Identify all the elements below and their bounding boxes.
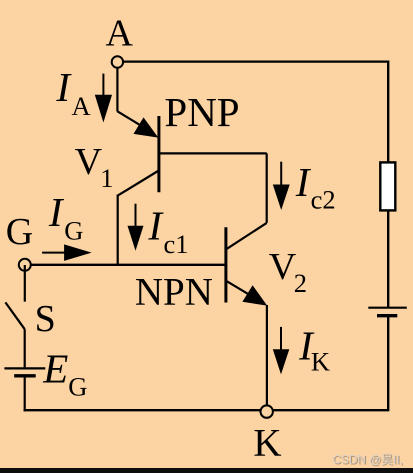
transistor V1 PNP base bar bbox=[157, 116, 160, 192]
transistor V1 PNP emitter arrowhead bbox=[134, 117, 159, 137]
bottom black bar bbox=[0, 468, 413, 473]
transistor V2 NPN base bar bbox=[224, 227, 227, 302]
svg-text:I: I bbox=[55, 64, 72, 110]
current arrow IA bbox=[102, 74, 104, 97]
transistor V2 NPN emitter arrowhead bbox=[242, 285, 267, 305]
battery E (right) short plate bbox=[377, 314, 397, 317]
battery EG short plate bbox=[14, 374, 36, 377]
wire top (A to right rail) bbox=[117, 60, 388, 62]
wire cathode vertical bbox=[266, 305, 268, 412]
svg-text:CSDN @吴II,: CSDN @吴II, bbox=[333, 453, 403, 467]
current arrow IK bbox=[280, 327, 282, 351]
svg-text:I: I bbox=[295, 159, 312, 205]
svg-text:G: G bbox=[68, 372, 87, 402]
current arrow Ic2 bbox=[280, 162, 282, 186]
node K terminal circle bbox=[261, 405, 273, 417]
wire V1 collector to gate wire bbox=[117, 195, 119, 265]
svg-text:K: K bbox=[311, 347, 330, 377]
transistor V2 NPN collector diagonal bbox=[226, 223, 267, 250]
battery E (right) long plate bbox=[368, 307, 407, 309]
wire right rail middle bbox=[387, 210, 389, 307]
svg-text:2: 2 bbox=[294, 268, 307, 298]
wire bottom rail bbox=[24, 409, 389, 411]
svg-text:PNP: PNP bbox=[164, 89, 239, 135]
wire V1 base to V2 collector (horizontal) bbox=[159, 152, 267, 154]
current arrow Ic1 bbox=[135, 204, 137, 228]
wire switch-battery vertical bbox=[24, 329, 26, 367]
transistor V1 PNP emitter wire bbox=[117, 111, 146, 128]
transistor V1 PNP collector diagonal bbox=[118, 171, 158, 196]
svg-text:G: G bbox=[6, 211, 33, 253]
switch S blade bbox=[5, 302, 24, 329]
svg-text:V: V bbox=[75, 141, 103, 183]
svg-text:c2: c2 bbox=[311, 185, 336, 215]
wire right rail upper bbox=[387, 61, 389, 164]
svg-text:A: A bbox=[72, 91, 91, 121]
svg-text:I: I bbox=[48, 189, 65, 235]
svg-text:A: A bbox=[106, 13, 134, 55]
svg-text:I: I bbox=[147, 203, 164, 249]
svg-text:E: E bbox=[42, 345, 68, 391]
svg-text:K: K bbox=[253, 422, 281, 465]
transistor V2 NPN emitter wire bbox=[226, 281, 252, 297]
current arrow IG bbox=[42, 252, 66, 254]
wire V2 collector vertical bbox=[266, 153, 268, 223]
svg-text:1: 1 bbox=[100, 163, 113, 193]
wire battery-bottom vertical bbox=[24, 376, 26, 412]
wire anode vertical bbox=[116, 62, 118, 112]
resistor load R bbox=[380, 162, 395, 210]
svg-text:c1: c1 bbox=[164, 229, 189, 259]
svg-text:S: S bbox=[35, 298, 56, 340]
wire gate horizontal bbox=[25, 264, 226, 266]
svg-text:V: V bbox=[269, 246, 297, 288]
wire gate-switch vertical bbox=[24, 265, 26, 302]
wire right rail lower bbox=[387, 316, 389, 412]
svg-text:G: G bbox=[64, 215, 83, 245]
battery EG long plate bbox=[4, 367, 45, 369]
node G terminal circle bbox=[19, 259, 31, 271]
node A terminal circle bbox=[112, 56, 123, 67]
svg-text:NPN: NPN bbox=[135, 270, 213, 313]
